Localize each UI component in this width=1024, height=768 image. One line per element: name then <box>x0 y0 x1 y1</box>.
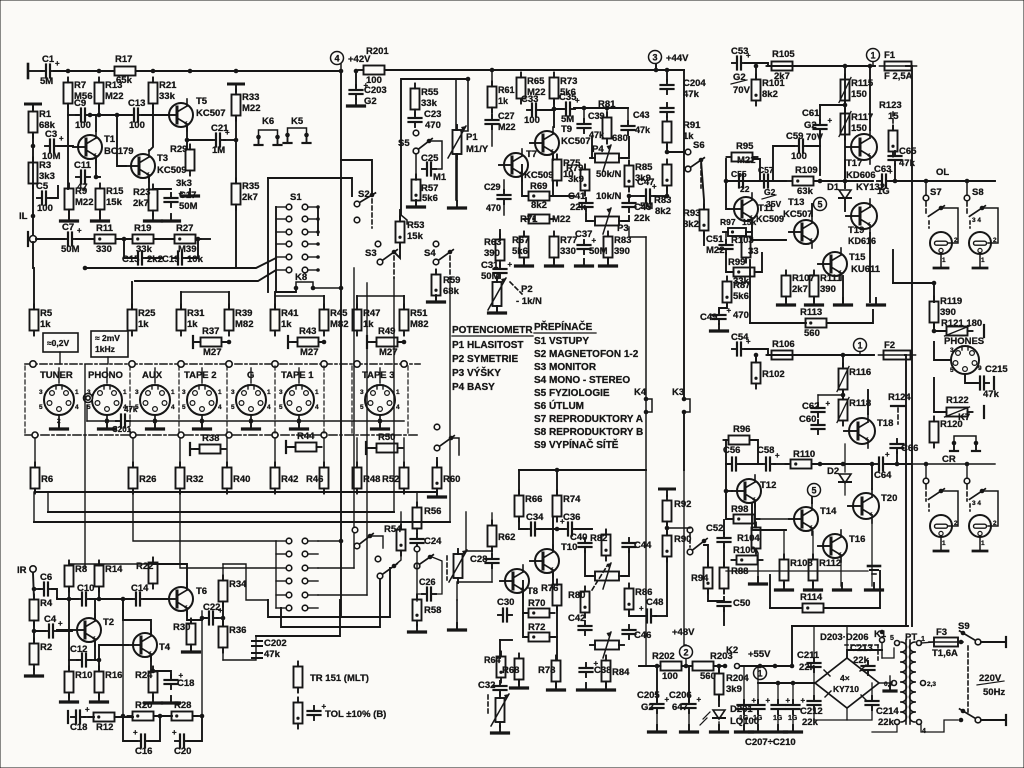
capacitor C24 <box>411 534 443 548</box>
wire <box>877 645 879 660</box>
transistor T9 <box>530 124 591 159</box>
svg-text:+: + <box>697 695 702 704</box>
wire <box>686 666 689 701</box>
wire <box>98 587 100 599</box>
transistor T2 <box>72 614 114 646</box>
resistor R3 <box>29 158 55 189</box>
wire <box>180 493 276 568</box>
svg-text:C36: C36 <box>563 512 580 523</box>
wire <box>666 70 668 81</box>
svg-text:R72: R72 <box>528 622 545 633</box>
capacitor C57 <box>758 165 774 188</box>
diamond contact a <box>32 432 38 438</box>
resistor R36 <box>219 622 247 653</box>
wire <box>276 288 296 292</box>
wire <box>33 492 35 522</box>
svg-text:R93: R93 <box>683 208 700 219</box>
svg-text:BC179: BC179 <box>104 146 134 157</box>
wire <box>869 233 871 302</box>
potentiometer P4 <box>590 144 624 180</box>
svg-text:R58: R58 <box>424 605 441 616</box>
svg-text:33: 33 <box>748 246 759 257</box>
text 220V 50Hz <box>977 673 1005 698</box>
wire <box>928 221 930 228</box>
potentiometer P2 pot <box>488 277 506 311</box>
svg-text:IR: IR <box>17 565 27 576</box>
capacitor C35 <box>559 92 580 125</box>
svg-text:M27: M27 <box>203 347 221 358</box>
svg-text:C49: C49 <box>700 312 717 323</box>
capacitor C6 <box>39 572 53 596</box>
wire <box>622 216 629 221</box>
switch S5 <box>398 138 432 154</box>
wire <box>755 253 762 272</box>
wire <box>455 79 457 130</box>
svg-text:+: + <box>746 337 751 346</box>
resistor R75 <box>553 155 582 186</box>
transistor T13 <box>783 197 818 248</box>
svg-text:R201: R201 <box>366 46 389 57</box>
svg-text:R70: R70 <box>528 598 545 609</box>
svg-text:S5 FYZIOLOGIE: S5 FYZIOLOGIE <box>534 388 610 399</box>
resistor R51 <box>400 305 429 336</box>
resistor R120 <box>930 417 963 448</box>
svg-text:R97: R97 <box>720 217 736 227</box>
wire <box>181 291 229 293</box>
capacitor C21 <box>211 123 230 156</box>
potentiometer P4b <box>590 563 624 589</box>
wire <box>356 438 358 467</box>
capacitor C203 <box>350 81 387 107</box>
svg-text:33k: 33k <box>421 98 438 109</box>
svg-text:1k: 1k <box>498 96 509 106</box>
resistor R38 <box>190 433 226 455</box>
wire <box>25 363 420 365</box>
text S4 list <box>534 375 630 386</box>
svg-text:M22: M22 <box>737 155 755 166</box>
svg-text:560: 560 <box>804 328 820 339</box>
svg-text:R22: R22 <box>136 561 153 572</box>
svg-text:R94: R94 <box>691 573 709 584</box>
svg-text:R90: R90 <box>674 534 691 545</box>
wire select contact <box>30 361 36 367</box>
svg-text:R13: R13 <box>105 80 122 91</box>
contact K1 <box>874 629 887 658</box>
svg-text:3 4: 3 4 <box>972 217 981 224</box>
text TAPE 1 <box>281 370 314 381</box>
svg-text:R119: R119 <box>940 296 962 307</box>
wire <box>591 137 593 158</box>
speaker jack A <box>930 232 958 268</box>
svg-text:5: 5 <box>890 635 894 642</box>
capacitor C64 <box>874 450 892 481</box>
speaker jack B2 <box>969 515 997 551</box>
svg-text:1: 1 <box>981 540 985 547</box>
resistor R110 <box>786 449 817 469</box>
svg-text:1: 1 <box>396 389 400 396</box>
svg-text:R112: R112 <box>819 558 841 569</box>
resistor R86 <box>625 584 653 615</box>
level box 2mV 1kHz <box>91 331 128 364</box>
contact K2 <box>714 645 758 669</box>
svg-text:+: + <box>85 705 90 714</box>
wire <box>844 200 846 211</box>
capacitor C16 <box>133 728 152 757</box>
resistor R24 <box>135 667 158 698</box>
svg-text:2k7: 2k7 <box>242 192 258 203</box>
wire <box>393 256 395 278</box>
wire <box>89 114 131 116</box>
wire <box>267 178 269 292</box>
svg-text:S3: S3 <box>365 248 377 259</box>
wire <box>187 139 212 141</box>
svg-text:100: 100 <box>791 151 807 162</box>
svg-text:3: 3 <box>279 389 283 396</box>
resistor R40 <box>223 463 251 494</box>
svg-text:C6: C6 <box>40 572 52 583</box>
svg-text:1k: 1k <box>40 319 51 330</box>
resistor R97 <box>720 217 756 236</box>
transistor T20 <box>848 489 897 523</box>
wire <box>726 490 732 492</box>
svg-text:1k: 1k <box>187 319 198 330</box>
text G2 35V <box>762 187 781 209</box>
fuse F3 <box>929 627 963 659</box>
svg-text:1: 1 <box>942 540 946 547</box>
resistor R12 <box>89 713 120 734</box>
ground P2b <box>492 726 509 733</box>
svg-text:F2: F2 <box>884 340 895 351</box>
wire <box>723 610 725 625</box>
svg-text:+: + <box>77 226 82 235</box>
resistor R118 <box>837 395 871 426</box>
resistor R101 <box>752 75 786 106</box>
wire <box>726 181 729 209</box>
wire <box>743 666 745 702</box>
dashed channel dividers <box>25 366 408 433</box>
svg-text:C60: C60 <box>799 414 816 425</box>
wire <box>824 571 880 608</box>
wire <box>817 395 819 404</box>
svg-text:T12: T12 <box>760 480 776 491</box>
wire <box>666 557 668 616</box>
capacitor C38 <box>580 659 612 677</box>
wire C18b left plate <box>67 711 69 723</box>
svg-text:KD606: KD606 <box>846 170 876 181</box>
svg-text:470: 470 <box>486 203 501 213</box>
ground R104 <box>750 577 767 584</box>
wire <box>807 134 820 146</box>
transistor T6 <box>164 583 207 615</box>
node 5 circle <box>814 198 827 211</box>
svg-text:R202: R202 <box>652 651 675 662</box>
svg-text:R6: R6 <box>41 474 53 485</box>
resistor R123 body <box>889 126 898 157</box>
svg-text:C56: C56 <box>723 445 740 456</box>
svg-text:R123: R123 <box>879 100 902 111</box>
resistor R31 <box>177 305 206 336</box>
ground C203 <box>348 99 365 106</box>
svg-text:4: 4 <box>267 404 271 411</box>
wire <box>132 438 134 467</box>
resistor R35 <box>232 179 261 210</box>
wire <box>154 715 172 717</box>
resistor R79 <box>566 163 590 196</box>
svg-text:22k: 22k <box>878 717 895 728</box>
wire <box>35 489 437 492</box>
svg-text:PŘEPÍNAČE: PŘEPÍNAČE <box>534 320 593 333</box>
svg-text:T11: T11 <box>758 203 775 214</box>
svg-text:R124: R124 <box>888 392 911 403</box>
wire <box>370 536 383 548</box>
wire select contact <box>321 361 327 367</box>
svg-text:M22: M22 <box>552 214 570 225</box>
svg-text:M27: M27 <box>379 347 397 358</box>
svg-text:3: 3 <box>135 389 139 396</box>
svg-text:+: + <box>746 51 751 60</box>
svg-text:C33: C33 <box>521 94 538 105</box>
wire stem dots <box>105 419 383 424</box>
wire <box>153 188 171 190</box>
wire <box>503 180 505 191</box>
wire <box>68 587 70 671</box>
svg-text:P1 HLASITOST: P1 HLASITOST <box>452 340 524 351</box>
svg-text:S9 VYPÍNAČ SÍTĚ: S9 VYPÍNAČ SÍTĚ <box>534 438 619 451</box>
resistor R95 <box>727 141 758 166</box>
capacitor C39 <box>578 111 606 140</box>
svg-text:C212: C212 <box>800 706 823 717</box>
svg-text:22: 22 <box>740 184 750 194</box>
svg-text:R99: R99 <box>728 257 745 268</box>
ground P2 <box>489 306 506 313</box>
ground row amp2 <box>776 583 883 590</box>
wire <box>512 69 684 71</box>
text S7 list <box>534 414 643 425</box>
wire <box>819 105 821 120</box>
switch blade b <box>375 556 397 579</box>
wire <box>222 341 229 343</box>
diamond contact b <box>130 432 136 438</box>
svg-text:68k: 68k <box>443 286 460 297</box>
switch S1 contact row 4 <box>276 241 320 247</box>
wire <box>906 66 912 626</box>
wire <box>523 613 528 637</box>
wire <box>99 645 128 660</box>
resistor R114 <box>798 592 829 613</box>
switch S7b blade <box>928 489 944 500</box>
svg-text:C18: C18 <box>70 722 87 733</box>
wire <box>76 238 94 240</box>
wire <box>639 665 660 667</box>
switch R60 top <box>434 424 459 455</box>
wire <box>552 573 554 584</box>
svg-text:1: 1 <box>75 389 79 396</box>
resistor R25 <box>128 305 157 336</box>
svg-text:8k2: 8k2 <box>762 89 778 100</box>
transistor T18 <box>844 414 893 448</box>
svg-text:150: 150 <box>851 89 867 100</box>
svg-text:M22: M22 <box>706 245 724 256</box>
resistor R83b <box>654 160 672 218</box>
resistor R74 <box>553 491 582 522</box>
resistor R113 <box>800 307 832 339</box>
text TUNER <box>40 370 73 381</box>
wire <box>725 232 727 241</box>
wire <box>403 489 405 492</box>
svg-text:R3: R3 <box>39 160 51 171</box>
wire <box>394 551 401 566</box>
capacitor C65 <box>889 146 918 169</box>
wire <box>655 64 657 70</box>
wire <box>115 716 133 718</box>
svg-text:C207÷C210: C207÷C210 <box>745 737 796 748</box>
svg-text:KD616: KD616 <box>848 236 876 246</box>
potentiometer P2b <box>491 693 509 727</box>
wire <box>752 221 786 240</box>
text G2 70V <box>731 72 751 96</box>
transistor T16 <box>818 530 865 562</box>
svg-text:M22: M22 <box>75 197 93 208</box>
svg-text:1kHz: 1kHz <box>95 344 115 354</box>
wire <box>777 683 779 702</box>
capacitor C22 <box>203 602 223 625</box>
svg-text:C7: C7 <box>62 222 74 233</box>
wire <box>416 553 418 601</box>
wire <box>770 607 802 609</box>
diamond contact e <box>272 432 278 438</box>
capacitor C206 <box>669 690 702 713</box>
wire <box>353 268 355 568</box>
wire <box>57 630 72 632</box>
capacitor C202 <box>252 638 287 660</box>
capacitor C56 <box>723 445 741 471</box>
legend TR151 <box>294 662 369 693</box>
svg-text:1: 1 <box>218 389 222 396</box>
transformer PT <box>901 640 915 724</box>
wire <box>385 69 678 71</box>
text P2 SYMETRIE <box>452 354 518 365</box>
wire select contact <box>129 361 135 367</box>
svg-text:1k: 1k <box>363 319 374 330</box>
wire <box>726 570 868 572</box>
resistor R109 <box>788 165 819 197</box>
resistor R17 <box>110 54 141 86</box>
wire <box>179 438 181 467</box>
wire <box>718 695 720 706</box>
svg-text:C31: C31 <box>481 260 499 271</box>
resistor R117 <box>839 109 873 140</box>
ground tone2 row <box>511 681 615 690</box>
text C207-C210 <box>745 737 796 748</box>
wire <box>646 470 660 666</box>
svg-text:C42: C42 <box>568 613 585 624</box>
capacitor C4 <box>44 614 63 638</box>
svg-text:C20: C20 <box>174 746 191 757</box>
svg-text:5: 5 <box>231 404 235 411</box>
svg-text:R204: R204 <box>726 673 749 684</box>
svg-text:C59: C59 <box>786 131 803 142</box>
switch matrix2 row 6 <box>276 605 318 611</box>
resistor R46 <box>306 463 329 494</box>
capacitor C7 <box>61 222 82 255</box>
capacitor C47 <box>637 177 657 212</box>
svg-text:R34: R34 <box>229 579 247 590</box>
wire <box>725 159 727 181</box>
capacitor C12 <box>70 644 91 667</box>
capacitor C205 <box>637 690 670 713</box>
svg-text:3 4: 3 4 <box>972 500 981 507</box>
resistor R111 <box>810 271 843 302</box>
wire <box>792 683 794 702</box>
transistor T4 <box>128 629 171 661</box>
wire <box>487 695 489 715</box>
capacitor C210 <box>787 696 806 722</box>
svg-text:R36: R36 <box>229 625 246 636</box>
wire <box>752 503 786 530</box>
svg-text:R76: R76 <box>541 583 558 594</box>
wire <box>52 589 57 598</box>
wire <box>298 368 300 383</box>
wire <box>814 180 873 182</box>
ground bars row <box>61 214 180 221</box>
ground row tone <box>516 259 617 266</box>
wire <box>318 540 341 542</box>
wire <box>725 464 727 491</box>
wire <box>892 112 894 130</box>
wire <box>655 615 667 617</box>
node 1c <box>754 667 767 680</box>
wire <box>491 128 493 146</box>
wire <box>36 238 64 240</box>
wire <box>756 549 758 582</box>
wire <box>842 276 844 302</box>
svg-text:C9: C9 <box>74 98 86 109</box>
ground row amp <box>778 298 885 305</box>
text S5 list <box>534 388 610 399</box>
svg-text:5: 5 <box>811 486 816 496</box>
wire <box>941 208 958 243</box>
svg-text:390: 390 <box>820 284 836 295</box>
wire <box>356 296 358 309</box>
wire <box>703 231 705 245</box>
capacitor C17 <box>165 189 198 212</box>
svg-text:R7: R7 <box>74 80 86 91</box>
wire <box>186 239 198 258</box>
wire <box>941 491 958 526</box>
capacitor C49 <box>700 306 749 324</box>
switch S9 top <box>958 621 981 645</box>
svg-text:100: 100 <box>524 115 540 126</box>
resistor R119 <box>930 296 963 328</box>
svg-text:R5: R5 <box>40 308 53 319</box>
svg-text:R111: R111 <box>820 273 842 284</box>
wire <box>57 598 78 599</box>
wire S8b drop <box>964 462 970 484</box>
resistor R23 <box>133 185 158 216</box>
wire <box>745 63 875 66</box>
capacitor C61 <box>802 108 833 143</box>
svg-text:C46: C46 <box>634 630 651 641</box>
fuse F1 <box>880 62 917 83</box>
wire <box>934 342 951 360</box>
transistor T7 <box>499 149 554 181</box>
switch S8 blade <box>969 206 985 224</box>
wire speaker drop S7 <box>923 179 929 201</box>
wire <box>34 621 45 631</box>
capacitor C53 <box>731 46 751 70</box>
wire <box>896 452 898 464</box>
resistor R63 <box>484 235 505 266</box>
